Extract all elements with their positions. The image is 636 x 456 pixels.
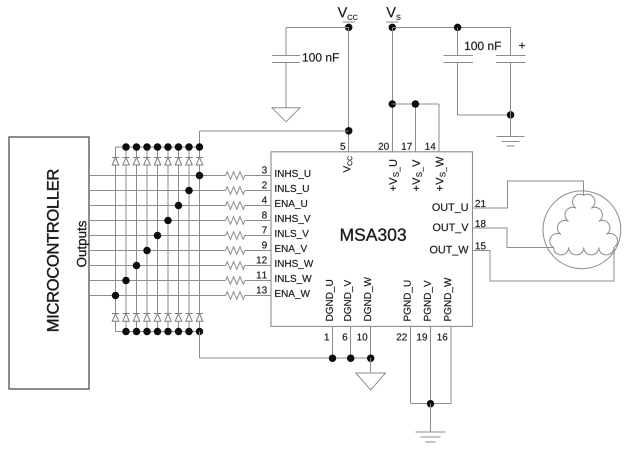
junction clamp column 9 / ground rail bbox=[196, 328, 204, 336]
junction V_CC / clamp rail bbox=[345, 127, 353, 135]
pin 21 label OUT_U bbox=[432, 200, 485, 213]
pin 15 label OUT_W bbox=[430, 242, 486, 255]
wire MCU output 2 bbox=[89, 190, 226, 192]
clamp diode D9A (to V_CC) bbox=[196, 157, 203, 165]
wire clamp column 9 bbox=[199, 147, 201, 332]
resistor R2 bbox=[226, 187, 245, 195]
wire PGND to earth ground bbox=[430, 404, 432, 432]
wire OUT_U (pin 21) to motor bbox=[473, 181, 584, 208]
junction clamp column 7 / V_CC rail bbox=[175, 143, 183, 151]
microcontroller U2 bbox=[9, 137, 89, 389]
pin 18 label OUT_V bbox=[433, 220, 486, 233]
junction DGND 6 bbox=[347, 354, 355, 362]
earth ground below C3 bbox=[497, 136, 525, 146]
wire R9 to IC bbox=[245, 295, 271, 297]
pin 4 label ENA_U bbox=[262, 197, 307, 209]
wire V_CC to pin 5 bbox=[348, 27, 350, 151]
junction output 2 / clamp column 8 bbox=[185, 187, 193, 195]
junction pin 17 branch bbox=[412, 100, 420, 108]
resistor R4 bbox=[226, 217, 245, 225]
resistor R8 bbox=[226, 277, 245, 285]
junction clamp column 9 / V_CC rail bbox=[196, 143, 204, 151]
junction clamp column 6 / V_CC rail bbox=[164, 143, 172, 151]
resistor R6 bbox=[226, 247, 245, 255]
resistor R5 bbox=[226, 232, 245, 240]
capacitor C2 100 nF bbox=[443, 27, 501, 62]
pin 12 label INHS_W bbox=[257, 256, 313, 268]
wire PGND pin 16 bbox=[450, 326, 452, 403]
pin 19 label PGND_V bbox=[417, 280, 433, 340]
wire V_CC clamp rail bbox=[116, 146, 200, 148]
wire R6 to IC bbox=[245, 250, 271, 252]
pin 2 label INLS_U bbox=[262, 181, 309, 193]
pin 17 label +VS_V bbox=[402, 143, 424, 191]
wire C2 to ground junction bbox=[458, 62, 511, 115]
pin 22 label PGND_U bbox=[397, 281, 413, 341]
pin 20 label +VS_U bbox=[379, 143, 401, 191]
junction output 6 / clamp column 4 bbox=[143, 247, 151, 255]
junction clamp column 8 / V_CC rail bbox=[185, 143, 193, 151]
clamp diode D4A (to V_CC) bbox=[144, 157, 151, 165]
ground (signal) below C1 bbox=[272, 108, 300, 122]
clamp diode D2A (to V_CC) bbox=[123, 157, 130, 165]
wire DGND to ground symbol bbox=[370, 358, 372, 373]
wire clamp rail to V_CC (top) bbox=[200, 131, 349, 147]
junction V_S / C2 bbox=[454, 24, 462, 32]
junction DGND 10 bbox=[367, 354, 375, 362]
junction output 3 / clamp column 7 bbox=[175, 202, 183, 210]
wire V_CC to C1 bbox=[286, 27, 349, 55]
pin 10 label DGND_W bbox=[357, 277, 373, 340]
pin 1 label DGND_U bbox=[325, 280, 335, 340]
clamp diode D2B (to ground) bbox=[123, 314, 130, 322]
wire PGND pin 19 bbox=[430, 326, 432, 403]
junction clamp column 3 / ground rail bbox=[133, 328, 141, 336]
wire clamp column 2 bbox=[125, 147, 127, 332]
junction clamp column 5 / ground rail bbox=[154, 328, 162, 336]
wire DGND pin 1 bbox=[332, 326, 334, 358]
junction clamp column 4 / ground rail bbox=[143, 328, 151, 336]
wire V_S to pin 20 bbox=[391, 27, 393, 151]
wire MCU output 5 bbox=[89, 235, 226, 237]
resistor R3 bbox=[226, 202, 245, 210]
junction output 1 / clamp column 9 bbox=[196, 172, 204, 180]
pin 6 label DGND_V bbox=[343, 280, 353, 341]
junction output 9 / clamp column 1 bbox=[112, 292, 120, 300]
pin 5 label V_CC bbox=[340, 143, 352, 173]
wire R4 to IC bbox=[245, 220, 271, 222]
pin 8 label INHS_V bbox=[262, 211, 310, 223]
junction output 8 / clamp column 2 bbox=[122, 277, 130, 285]
clamp diode D3B (to ground) bbox=[133, 314, 140, 322]
IC U1 MSA303 bbox=[271, 152, 473, 327]
wire C1 to ground bbox=[285, 62, 287, 107]
wire clamp column 7 bbox=[178, 147, 180, 332]
clamp diode D4B (to ground) bbox=[144, 314, 151, 322]
junction clamp column 2 / ground rail bbox=[122, 328, 130, 336]
pin 16 label PGND_W bbox=[437, 278, 453, 341]
wire R7 to IC bbox=[245, 265, 271, 267]
junction clamp column 7 / ground rail bbox=[175, 328, 183, 336]
pin 14 label +VS_W bbox=[425, 143, 447, 191]
clamp diode D7B (to ground) bbox=[175, 314, 182, 322]
capacitor C1 100 nF bbox=[272, 53, 339, 62]
wire clamp column 3 bbox=[136, 147, 138, 332]
wire R1 to IC bbox=[245, 175, 271, 177]
wire MCU output 4 bbox=[89, 220, 226, 222]
wire V_S branch to pins 17 and 14 bbox=[392, 104, 439, 152]
node V_CC bbox=[338, 7, 358, 31]
pin 3 label INHS_U bbox=[262, 166, 310, 178]
resistor R7 bbox=[226, 262, 245, 270]
wire clamp column 6 bbox=[167, 147, 169, 332]
clamp diode D8B (to ground) bbox=[186, 314, 193, 322]
clamp diode D9B (to ground) bbox=[196, 314, 203, 322]
motor M1 (3-phase, delta winding) bbox=[543, 191, 621, 269]
capacitor C3 (electrolytic, +) bbox=[496, 27, 526, 62]
junction clamp column 5 / V_CC rail bbox=[154, 143, 162, 151]
clamp diode D6A (to V_CC) bbox=[165, 157, 172, 165]
wire MCU output 1 bbox=[89, 175, 226, 177]
junction clamp column 8 / ground rail bbox=[185, 328, 193, 336]
wire R2 to IC bbox=[245, 190, 271, 192]
wire MCU output 8 bbox=[89, 280, 226, 282]
wire R3 to IC bbox=[245, 205, 271, 207]
junction clamp column 3 / V_CC rail bbox=[133, 143, 141, 151]
wire C3 to earth ground bbox=[510, 62, 512, 136]
clamp diode D7A (to V_CC) bbox=[175, 157, 182, 165]
wire clamp column 1 bbox=[115, 147, 117, 332]
wire R5 to IC bbox=[245, 235, 271, 237]
wire MCU output 6 bbox=[89, 250, 226, 252]
wire OUT_V (pin 18) to motor bbox=[473, 228, 554, 247]
pin 11 label INLS_W bbox=[257, 272, 312, 284]
wire PGND bus bbox=[410, 403, 451, 405]
clamp diode D8A (to V_CC) bbox=[186, 157, 193, 165]
junction output 4 / clamp column 6 bbox=[164, 217, 172, 225]
clamp diode D1B (to ground) bbox=[112, 314, 119, 322]
wire clamp column 5 bbox=[157, 147, 159, 332]
clamp diode D3A (to V_CC) bbox=[133, 157, 140, 165]
clamp diode D6B (to ground) bbox=[165, 314, 172, 322]
clamp diode D5B (to ground) bbox=[154, 314, 161, 322]
wire MCU output 7 bbox=[89, 265, 226, 267]
resistor R1 bbox=[226, 172, 245, 180]
pin 9 label ENA_V bbox=[262, 241, 307, 253]
wire ground rail to DGND pins bbox=[200, 332, 371, 359]
resistor R9 bbox=[226, 292, 245, 300]
junction DGND 1 bbox=[329, 354, 337, 362]
wire V_S top rail to capacitors bbox=[392, 26, 510, 28]
junction output 5 / clamp column 5 bbox=[154, 232, 162, 240]
pin 13 label ENA_W bbox=[257, 286, 310, 298]
junction PGND bbox=[427, 400, 435, 408]
wire PGND pin 22 bbox=[409, 326, 411, 403]
wire MCU output 9 bbox=[89, 295, 226, 297]
wire DGND pin 6 bbox=[350, 326, 352, 358]
wire DGND pin 10 bbox=[370, 326, 372, 358]
node V_S bbox=[386, 7, 400, 31]
junction clamp column 4 / V_CC rail bbox=[143, 143, 151, 151]
junction C2/C3 ground bbox=[507, 111, 514, 119]
clamp diode D1A (to V_CC) bbox=[112, 157, 119, 165]
wire R8 to IC bbox=[245, 280, 271, 282]
wire MCU output 3 bbox=[89, 205, 226, 207]
ground (signal) DGND bbox=[356, 373, 386, 390]
wire ground clamp rail bbox=[116, 331, 200, 333]
junction output 7 / clamp column 3 bbox=[133, 262, 141, 270]
junction V_S branch bbox=[389, 100, 397, 108]
pin 7 label INLS_V bbox=[262, 227, 309, 239]
earth ground PGND bbox=[416, 432, 446, 442]
wire clamp column 4 bbox=[146, 147, 148, 332]
wire clamp column 8 bbox=[188, 147, 190, 332]
wire OUT_W (pin 15) to motor bbox=[473, 247, 614, 280]
junction clamp column 6 / ground rail bbox=[164, 328, 172, 336]
junction clamp column 2 / V_CC rail bbox=[122, 143, 130, 151]
clamp diode D5A (to V_CC) bbox=[154, 157, 161, 165]
